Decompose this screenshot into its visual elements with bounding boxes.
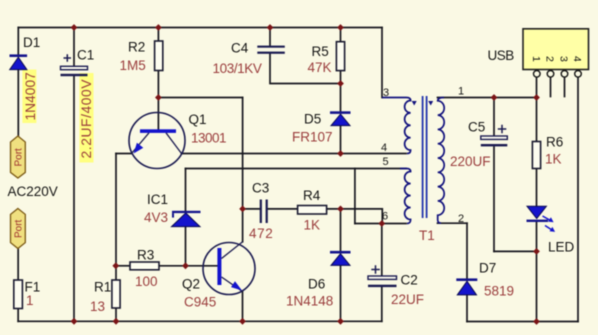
svg-text:R6: R6 [546,135,563,150]
svg-text:R4: R4 [303,188,321,203]
svg-text:2.2UF/400V: 2.2UF/400V [79,79,94,159]
svg-text:D1: D1 [23,35,40,50]
svg-text:T1: T1 [419,228,435,243]
svg-text:22UF: 22UF [391,292,424,307]
svg-text:13001: 13001 [191,131,226,146]
svg-text:100: 100 [135,274,158,289]
svg-text:1: 1 [530,56,542,62]
svg-text:R2: R2 [128,40,145,55]
svg-text:1N4007: 1N4007 [23,72,38,120]
svg-text:C5: C5 [468,120,485,135]
svg-text:103/1KV: 103/1KV [213,61,262,76]
svg-text:13: 13 [90,299,105,314]
svg-text:5: 5 [383,156,389,168]
svg-text:FR107: FR107 [292,130,333,145]
svg-text:C4: C4 [231,41,249,56]
svg-text:Q2: Q2 [182,277,200,292]
svg-text:1N4148: 1N4148 [286,294,333,309]
svg-text:D6: D6 [308,277,325,292]
svg-text:D7: D7 [479,261,496,276]
svg-text:4: 4 [381,142,387,154]
svg-text:LED: LED [548,240,575,255]
svg-text:2: 2 [458,213,464,225]
svg-text:AC220V: AC220V [8,184,58,199]
svg-text:4: 4 [571,56,583,62]
svg-text:Q1: Q1 [189,112,207,127]
svg-text:R3: R3 [137,248,154,263]
svg-text:C2: C2 [401,273,418,288]
svg-text:1K: 1K [304,218,321,233]
svg-text:R1: R1 [94,280,111,295]
svg-text:Port: Port [13,148,24,167]
svg-text:472: 472 [249,226,273,241]
svg-text:3: 3 [557,56,569,62]
svg-text:IC1: IC1 [147,192,168,207]
svg-text:USB: USB [488,48,515,63]
svg-text:D5: D5 [304,112,321,127]
svg-text:2: 2 [543,56,555,62]
svg-text:C1: C1 [77,48,94,63]
svg-text:5819: 5819 [484,284,514,299]
svg-text:4V3: 4V3 [144,210,168,225]
svg-text:C945: C945 [184,295,216,310]
svg-text:Port: Port [13,219,24,238]
svg-text:3: 3 [383,87,389,99]
svg-text:6: 6 [382,211,388,223]
svg-text:1: 1 [26,293,34,308]
svg-text:220UF: 220UF [450,154,491,169]
svg-text:47K: 47K [308,60,332,75]
svg-text:1: 1 [458,86,464,98]
svg-text:R5: R5 [312,44,329,59]
svg-text:1M5: 1M5 [120,58,146,73]
svg-text:1K: 1K [545,152,562,167]
svg-text:C3: C3 [252,181,269,196]
